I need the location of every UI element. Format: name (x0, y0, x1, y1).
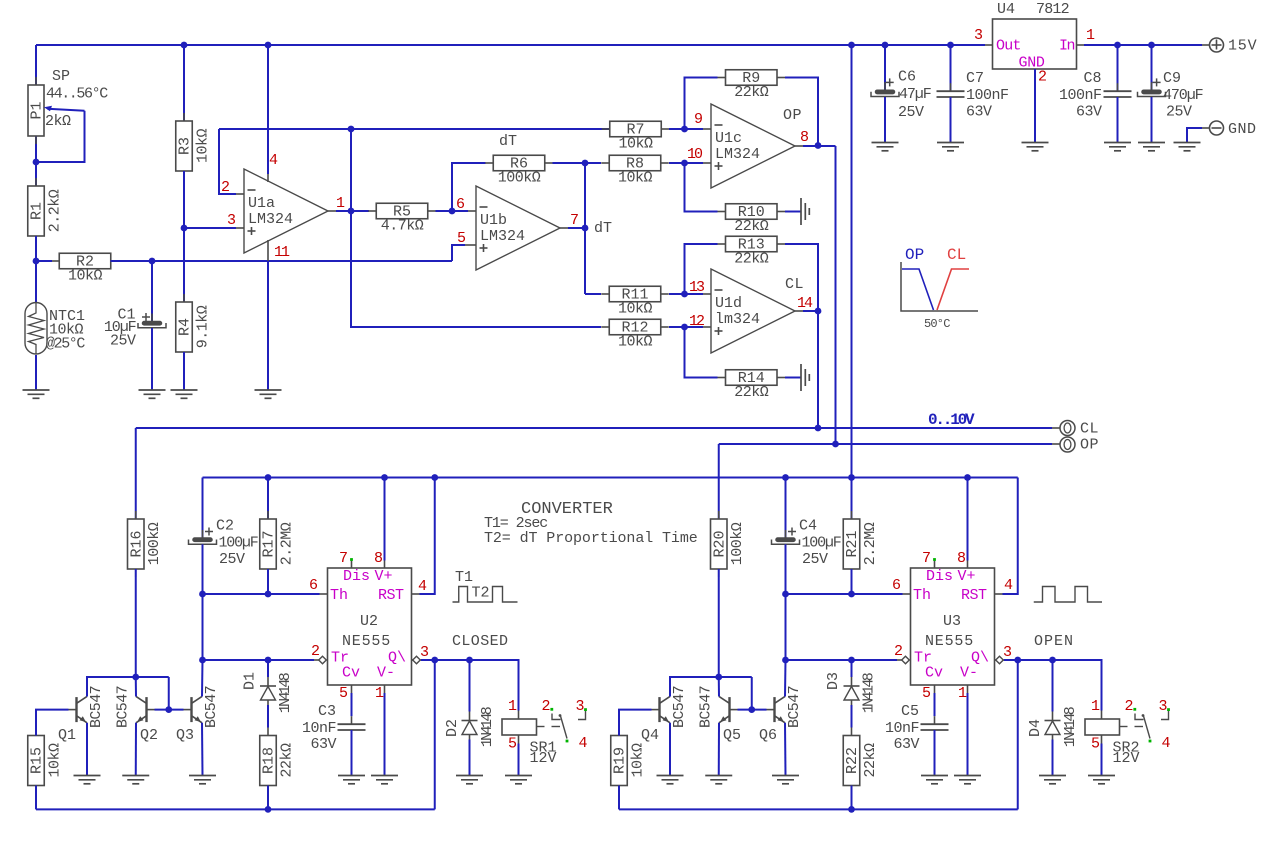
svg-text:LM324: LM324 (248, 211, 293, 228)
svg-text:2.2kΩ: 2.2kΩ (46, 189, 63, 232)
svg-text:6: 6 (309, 577, 318, 594)
svg-text:BC547: BC547 (203, 686, 220, 728)
node Q out junction1 (431, 657, 438, 664)
wire R5 to pin6 (436, 210, 469, 212)
node out rail junction C8 (1114, 42, 1121, 49)
wire R13 right to output (785, 244, 818, 311)
wire R10 to ground (785, 211, 801, 213)
wire dT vertical (584, 163, 586, 294)
potentiometer P1 2k (35, 45, 37, 85)
svg-text:R17: R17 (261, 530, 278, 557)
wire Q2 emitter ground (135, 723, 137, 776)
svg-text:10kΩ: 10kΩ (618, 135, 653, 152)
pin 4 wire U1a V+ (267, 45, 269, 174)
wire R9 feedback left (685, 78, 718, 130)
svg-text:dT: dT (594, 220, 612, 237)
svg-text:P1: P1 (29, 101, 46, 119)
svg-text:6: 6 (892, 577, 901, 594)
graph CL curve red (937, 269, 969, 310)
svg-text:OP: OP (905, 246, 924, 264)
wire to R11 (585, 293, 601, 295)
wire Q6 collector to Tr (784, 660, 787, 697)
svg-text:R20: R20 (711, 530, 728, 557)
ground D4 (1039, 775, 1066, 777)
node R17 Th junction (265, 591, 272, 598)
svg-text:1N4148: 1N4148 (1062, 706, 1079, 747)
svg-text:10kΩ: 10kΩ (618, 333, 653, 350)
svg-text:Q2: Q2 (140, 727, 158, 744)
svg-text:4: 4 (1004, 577, 1013, 594)
resistor R22 22k (851, 728, 853, 736)
wire V+ rail bottom (203, 477, 1018, 479)
wire C4 down to Tr line (785, 594, 787, 660)
node pin6 junction (449, 208, 456, 215)
wire C2 down to Tr line (202, 594, 204, 660)
svg-text:1: 1 (508, 698, 517, 715)
wire pin13 to R13 (685, 244, 718, 294)
pin 2 wire U1a (219, 129, 236, 194)
wire +V feed down (851, 45, 853, 519)
wire R9 right to output (785, 78, 818, 146)
connector OP (1060, 437, 1075, 452)
svg-text:63V: 63V (893, 736, 919, 753)
svg-text:5: 5 (508, 736, 517, 753)
waveform right (1034, 587, 1102, 603)
ground SR1 (505, 775, 532, 777)
graph OP curve blue (902, 269, 934, 310)
svg-text:R15: R15 (29, 747, 46, 774)
wire Q1 collector (87, 677, 169, 697)
relay SR2 contact (1120, 726, 1128, 728)
resistor R19 10k (618, 728, 620, 736)
node Tr C4 junction (782, 657, 789, 664)
svg-text:1: 1 (1086, 27, 1095, 44)
ground Q1 (74, 775, 101, 777)
svg-text:100kΩ: 100kΩ (498, 169, 541, 186)
ground U1a V- (255, 389, 282, 391)
svg-text:R1: R1 (29, 202, 46, 220)
svg-text:3: 3 (227, 212, 236, 229)
wire Q2 collector (135, 677, 137, 697)
svg-text:C8: C8 (1083, 70, 1101, 87)
svg-text:Dis: Dis (343, 568, 370, 585)
svg-text:3: 3 (420, 644, 429, 661)
svg-text:9.1kΩ: 9.1kΩ (194, 305, 211, 348)
ground C7 (937, 142, 964, 144)
node rail U2 V+ (381, 474, 388, 481)
node R21 Th junction (848, 591, 855, 598)
svg-text:1N4148: 1N4148 (479, 706, 496, 747)
svg-text:63V: 63V (1076, 104, 1102, 121)
pin 2 diamond U3 (902, 656, 910, 664)
svg-text:BC547: BC547 (698, 686, 715, 728)
svg-text:2.2MΩ: 2.2MΩ (278, 522, 295, 565)
svg-text:4: 4 (418, 578, 427, 595)
node Tr C2 junction (199, 657, 206, 664)
svg-text:7: 7 (339, 550, 348, 567)
wire R15 to Q1 base (36, 710, 69, 736)
svg-text:7: 7 (922, 550, 931, 567)
wire Q1 emitter ground (86, 723, 88, 776)
wire pin10 to R10 (685, 163, 718, 212)
capacitor C7 100nF (950, 45, 952, 91)
svg-text:V-: V- (960, 665, 978, 682)
transistor Q1 BC547 (75, 697, 77, 722)
svg-text:100nF: 100nF (1059, 87, 1102, 104)
svg-text:8: 8 (957, 550, 966, 567)
svg-text:3: 3 (1159, 698, 1168, 715)
ground Q3 (189, 775, 216, 777)
svg-text:V+: V+ (958, 568, 976, 585)
capacitor C3 10nF (351, 716, 353, 724)
node R18 bottom rail junction (265, 806, 272, 813)
wire R2 to pin11 line (111, 260, 453, 262)
node top rail junction C6 (882, 42, 889, 49)
node R16 collector junction (132, 674, 139, 681)
ground C5 (921, 775, 948, 777)
svg-text:2: 2 (311, 643, 320, 660)
pin 1 wire U2 V- (384, 685, 386, 693)
wire CL line 0..10V (136, 427, 1052, 429)
svg-text:12V: 12V (530, 750, 557, 767)
svg-text:2: 2 (1038, 69, 1047, 86)
svg-text:U4: U4 (997, 1, 1015, 18)
svg-text:2kΩ: 2kΩ (45, 113, 71, 130)
svg-text:LM324: LM324 (715, 146, 760, 163)
svg-text:Q3: Q3 (176, 727, 194, 744)
wire OP line (719, 443, 1052, 445)
svg-text:25V: 25V (219, 551, 245, 568)
ground D2 (456, 775, 483, 777)
svg-text:V-: V- (377, 665, 395, 682)
svg-text:lm324: lm324 (715, 311, 760, 328)
svg-text:10kΩ: 10kΩ (629, 743, 646, 778)
resistor R20 100k (718, 444, 720, 519)
svg-text:3: 3 (576, 698, 585, 715)
node OP junction (832, 441, 839, 448)
pin 1 wire U1a output (328, 210, 336, 212)
ground SR2 (1088, 775, 1115, 777)
svg-text:BC547: BC547 (786, 686, 803, 728)
svg-text:14: 14 (797, 295, 813, 312)
svg-text:4: 4 (269, 152, 278, 169)
pin 7 wire U1b output dT (560, 227, 568, 229)
wire NTC1 to ground (35, 355, 37, 390)
svg-text:D3: D3 (825, 672, 842, 690)
svg-text:@25°C: @25°C (46, 336, 85, 353)
svg-text:D1: D1 (241, 672, 258, 690)
ground R4 (171, 389, 198, 391)
resistor R2 10k (51, 260, 59, 262)
pin 14 wire U1d output (795, 310, 803, 312)
wire U4 out right rail (1077, 44, 1085, 46)
node rail U2 RST (431, 474, 438, 481)
node Q out junction2 (466, 657, 473, 664)
svg-text:NE555: NE555 (342, 633, 391, 650)
ground R10 rotated (800, 198, 802, 225)
svg-text:47µF: 47µF (899, 86, 931, 103)
ground GND connector (1174, 142, 1201, 144)
transistor Q4 BC547 (658, 697, 660, 722)
svg-text:U1a: U1a (248, 195, 275, 212)
svg-text:1N4148: 1N4148 (861, 672, 878, 713)
svg-text:4: 4 (579, 735, 588, 752)
wire R7 to pin9 (669, 128, 703, 130)
resistor R8 10k (601, 162, 609, 164)
transistor Q6 BC547 (773, 697, 775, 722)
svg-text:25V: 25V (1166, 104, 1192, 121)
connector +15V (1210, 38, 1224, 52)
svg-text:NE555: NE555 (925, 633, 974, 650)
pin 3 wire U1a (184, 227, 236, 229)
svg-text:T1: T1 (455, 569, 473, 586)
wire R19 to Q4 base (619, 710, 652, 736)
svg-text:C5: C5 (901, 703, 919, 720)
node top rail junction +V down (848, 42, 855, 49)
wire feedback pin2 to R7 (219, 128, 610, 130)
diode D4 1N4148 (1052, 660, 1054, 712)
wire Q5 emitter ground (718, 723, 720, 776)
wire U2 V+ pin8 (384, 478, 386, 561)
node C1 junction (149, 258, 156, 265)
waveform T1 T2 (453, 587, 518, 603)
svg-text:BC547: BC547 (88, 686, 105, 728)
ground U4 (1022, 142, 1049, 144)
wire base link Q5 Q6 (738, 709, 767, 711)
svg-text:100kΩ: 100kΩ (146, 522, 163, 565)
svg-text:GND: GND (1228, 121, 1257, 138)
svg-text:dT: dT (499, 133, 517, 150)
svg-text:1: 1 (1091, 698, 1100, 715)
svg-text:9: 9 (694, 111, 703, 128)
svg-text:10kΩ: 10kΩ (618, 300, 653, 317)
svg-text:CL: CL (947, 246, 966, 264)
svg-text:T2: T2 (472, 585, 490, 602)
svg-text:11: 11 (274, 244, 290, 261)
capacitor C5 10nF (934, 716, 936, 724)
wire GND connector (1187, 128, 1202, 143)
transistor Q2 BC547 mirrored (145, 697, 147, 722)
svg-text:12: 12 (689, 313, 704, 330)
svg-text:5: 5 (922, 685, 931, 702)
ground C8 (1104, 142, 1131, 144)
svg-text:8: 8 (800, 129, 809, 146)
svg-text:10nF: 10nF (885, 720, 919, 737)
wire Th line U3 (786, 593, 903, 595)
svg-text:15V: 15V (1228, 38, 1257, 55)
ground NTC1 (23, 389, 50, 391)
svg-text:5: 5 (1091, 736, 1100, 753)
wire Tr line U2 (203, 659, 315, 661)
wire Tr line U3 (786, 659, 898, 661)
wire U3 V+ pin8 (967, 478, 969, 561)
svg-text:BC547: BC547 (115, 686, 132, 728)
ground Q2 (122, 775, 149, 777)
node rail C4 (782, 474, 789, 481)
op-amp U1b LM324 (476, 186, 560, 270)
svg-text:5: 5 (457, 230, 466, 247)
svg-text:OP: OP (783, 107, 802, 124)
svg-text:2: 2 (221, 179, 230, 196)
svg-text:In: In (1059, 38, 1075, 55)
wire pin12 to R14 (685, 327, 718, 378)
svg-text:R16: R16 (128, 530, 145, 557)
node top rail junction C7 (947, 42, 954, 49)
node Tr D3 junction (848, 657, 855, 664)
pin 2 diamond U2 (319, 656, 327, 664)
diode D1 1N4148 (267, 660, 269, 677)
svg-text:R4: R4 (177, 318, 194, 336)
svg-text:U2: U2 (360, 613, 378, 630)
wire Q output CLOSED (421, 660, 519, 711)
pin 3 wire U3 output (995, 659, 1005, 661)
svg-text:100µF: 100µF (219, 535, 258, 552)
svg-text:1N4148: 1N4148 (277, 672, 294, 713)
resistor R3 10k (183, 45, 185, 121)
svg-text:CLOSED: CLOSED (452, 633, 508, 650)
resistor R17 2.2M (267, 478, 269, 520)
node Q5 Q6 base junction (748, 706, 755, 713)
op-amp U1a LM324 (244, 169, 328, 253)
op-amp U1d lm324 (711, 269, 795, 353)
node CL junction (815, 425, 822, 432)
svg-text:Cv: Cv (342, 665, 360, 682)
svg-text:R19: R19 (612, 747, 629, 774)
ic U3 NE555 (911, 568, 995, 685)
svg-text:U1c: U1c (715, 130, 742, 147)
svg-text:C4: C4 (799, 518, 817, 535)
svg-text:V+: V+ (375, 568, 393, 585)
svg-text:Th: Th (913, 587, 931, 604)
resistor R11 10k (601, 293, 609, 295)
node Q2 Q3 base junction (165, 706, 172, 713)
wire bottom rail left (36, 808, 435, 810)
wire R8 to pin10 (669, 162, 703, 164)
wire R14 to ground (785, 377, 801, 379)
ground Q4 (657, 775, 684, 777)
node Tr D1 junction (265, 657, 272, 664)
wire Th line U2 (203, 593, 320, 595)
pin 1 wire U3 V- (967, 685, 969, 693)
svg-text:44..56°C: 44..56°C (46, 86, 108, 103)
wire OP signal down (835, 146, 837, 444)
svg-text:R18: R18 (261, 747, 278, 774)
svg-text:Q5: Q5 (723, 727, 741, 744)
svg-text:CL: CL (785, 276, 804, 293)
wire Q3 emitter ground (201, 723, 204, 776)
svg-text:10nF: 10nF (302, 720, 336, 737)
wire base link down (168, 677, 170, 710)
svg-text:8: 8 (374, 550, 383, 567)
resistor R6 100k (485, 162, 493, 164)
ground C3 (338, 775, 365, 777)
svg-text:22kΩ: 22kΩ (734, 218, 769, 235)
svg-text:100µF: 100µF (802, 535, 841, 552)
svg-text:63V: 63V (310, 736, 336, 753)
pin 7 stub U3 (934, 561, 936, 569)
svg-text:10kΩ: 10kΩ (68, 267, 103, 284)
resistor R14 22k (718, 377, 726, 379)
svg-text:D4: D4 (1027, 719, 1044, 737)
resistor R7 10k (602, 128, 610, 130)
svg-text:3: 3 (974, 27, 983, 44)
node output U1d junction (815, 308, 822, 315)
wire base link Q2 Q3 (155, 709, 184, 711)
svg-text:C3: C3 (318, 703, 336, 720)
capacitor C6 47uF (884, 45, 886, 91)
svg-text:Q1: Q1 (58, 727, 76, 744)
svg-text:U1b: U1b (480, 212, 507, 229)
svg-text:5: 5 (339, 685, 348, 702)
node P1 bottom junction (35, 136, 37, 162)
node C2 Th junction (199, 591, 206, 598)
resistor R4 9.1k (183, 228, 185, 302)
svg-text:U1d: U1d (715, 295, 742, 312)
resistor R12 10k (351, 211, 601, 327)
node R6 R8 junction (582, 160, 589, 167)
thermistor NTC1 (35, 261, 37, 305)
wire Q5 collector (718, 677, 720, 697)
pin 7 stub U2 (351, 561, 353, 569)
diode D3 1N4148 (851, 660, 853, 677)
node dT junction (582, 225, 589, 232)
ground C6 (872, 142, 899, 144)
diode D2 1N4148 (469, 660, 471, 712)
svg-text:25V: 25V (898, 104, 924, 121)
pin 3 diamond U3 (996, 656, 1004, 664)
node C4 Th junction (782, 591, 789, 598)
svg-text:C7: C7 (966, 70, 984, 87)
resistor R10 22k (718, 211, 726, 213)
svg-text:2: 2 (894, 643, 903, 660)
svg-text:0..10V: 0..10V (928, 411, 975, 429)
svg-text:T2= dT Proportional Time: T2= dT Proportional Time (484, 530, 698, 547)
regulator U4 7812 (993, 19, 1077, 69)
svg-text:R3: R3 (177, 137, 194, 155)
resistor R5 4.7k (368, 210, 376, 212)
node R20 collector junction (715, 674, 722, 681)
node pin12 junction (681, 324, 688, 331)
svg-text:R21: R21 (844, 530, 861, 557)
relay SR1 contact (537, 726, 545, 728)
wire Q4 collector (670, 677, 752, 697)
svg-text:10kΩ: 10kΩ (46, 743, 63, 778)
svg-text:22kΩ: 22kΩ (734, 84, 769, 101)
svg-text:25V: 25V (802, 551, 828, 568)
pin 5 wire U2 Cv (351, 685, 353, 693)
node top rail junction U1a V+ (265, 42, 272, 49)
op-amp U1c LM324 (711, 104, 795, 188)
resistor R16 100k (135, 428, 137, 519)
svg-text:Th: Th (330, 587, 348, 604)
svg-text:LM324: LM324 (480, 228, 525, 245)
svg-text:Q6: Q6 (759, 727, 777, 744)
svg-text:OPEN: OPEN (1034, 633, 1074, 650)
svg-text:1: 1 (375, 685, 384, 702)
svg-text:SP: SP (52, 68, 70, 85)
wire base link down right (751, 677, 753, 710)
svg-text:22kΩ: 22kΩ (862, 743, 879, 778)
connector GND (1210, 121, 1224, 135)
resistor R18 22k (267, 728, 269, 736)
wire Q6 emitter ground (784, 723, 787, 776)
svg-text:BC547: BC547 (671, 686, 688, 728)
capacitor C8 100nF (1117, 45, 1119, 91)
wire R11 to pin13 (669, 293, 703, 295)
node Q out junction3 (1014, 657, 1021, 664)
svg-text:U3: U3 (943, 613, 961, 630)
node out rail junction C9 (1148, 42, 1155, 49)
